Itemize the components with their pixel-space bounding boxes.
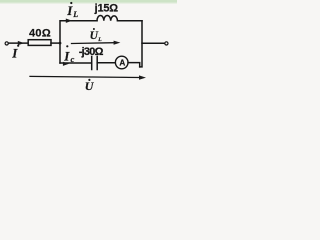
current arrow I [18,41,24,45]
svg-text:c: c [71,54,75,64]
current arrow IC [63,62,69,66]
svg-text:40Ω: 40Ω [29,27,51,39]
svg-text:L: L [97,37,102,43]
current arrow IL [66,19,72,23]
ammeter A [115,56,128,69]
right terminal [165,42,168,45]
wire capacitor branch left [60,62,91,64]
capacitor -j30ohm plate right [96,56,98,69]
svg-text:A: A [119,58,125,67]
svg-text:I: I [66,3,73,18]
wire top rail right [118,20,143,22]
wire output [142,42,165,44]
wire capacitor to ammeter [97,62,115,64]
left terminal [5,42,8,45]
wire left rail [60,21,97,63]
svg-text:U: U [90,30,99,42]
svg-text:L: L [72,10,78,19]
voltage arrow UL middle [72,42,115,45]
svg-text:-j30Ω: -j30Ω [79,46,104,58]
wire input [9,42,29,44]
wire right rail [140,21,142,67]
capacitor -j30ohm plate left [91,56,93,69]
svg-text:j15Ω: j15Ω [94,2,119,14]
svg-text:I: I [63,48,70,63]
voltage arrow U bottom [30,76,140,77]
wire resistor to left rail [51,42,60,44]
svg-text:I: I [11,46,18,61]
node junction left [59,42,62,45]
resistor 40ohm [28,40,51,46]
inductor j15ohm [97,15,118,20]
wire ammeter to right rail [128,63,140,67]
